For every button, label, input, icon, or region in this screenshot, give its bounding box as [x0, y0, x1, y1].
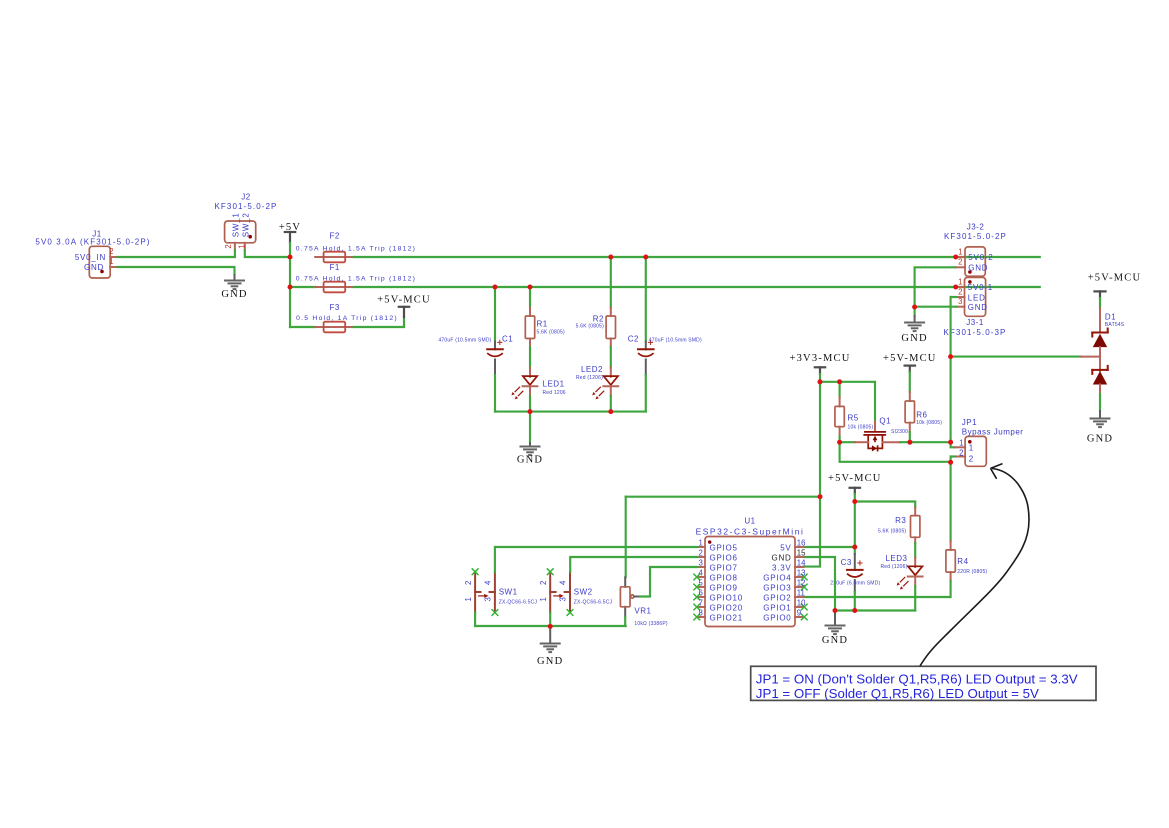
ground stem (C3 area) [834, 611, 836, 626]
junction switch ground [548, 624, 553, 629]
ground stem (D1) [1099, 411, 1101, 419]
capacitor C1 pins [494, 342, 496, 376]
wire LED2 bottom [610, 396, 612, 412]
svg-text:ZX-QC66-6.5CJ: ZX-QC66-6.5CJ [574, 600, 613, 606]
resistor R3 pins [914, 507, 916, 543]
svg-text:R4: R4 [957, 557, 968, 566]
svg-text:5.6K (0805): 5.6K (0805) [537, 329, 565, 335]
diode D1 BAT54S [1081, 291, 1125, 394]
wire R2 top [610, 257, 612, 308]
fuse F2 0.75A [296, 232, 416, 263]
junction F1 input [288, 285, 293, 290]
svg-text:C3: C3 [841, 558, 852, 567]
resistor R6 10k [905, 401, 942, 426]
connector J2 (power switch KF301-5.0-2P) [214, 193, 277, 251]
wire R5 bottom [839, 437, 841, 443]
wire R5 node to Q1 source [840, 441, 855, 443]
wire C1 bottom [494, 375, 496, 412]
label C3 [830, 558, 880, 586]
junction R5 top node [837, 379, 842, 384]
svg-text:GPIO8: GPIO8 [710, 574, 738, 583]
wire J1 pin2 to J2 pin2 [118, 256, 235, 258]
svg-text:2: 2 [698, 548, 702, 557]
svg-text:3.3V: 3.3V [772, 564, 791, 573]
junction JP1 pin2 node [948, 460, 953, 465]
svg-text:GND: GND [537, 656, 563, 667]
wire rail 5V0-2 (F2 output) [354, 256, 1040, 258]
wire JP1 pin1 elbow [951, 442, 955, 447]
U1 left pins GPIO5-GPIO21 [693, 538, 743, 622]
svg-text:GND: GND [901, 333, 927, 344]
svg-text:C1: C1 [502, 335, 513, 344]
wire F3 input stub [290, 326, 315, 328]
wire C2 bottom [645, 375, 647, 412]
LED LED3 (Red 1206) [880, 554, 922, 590]
wire J3-2 pin2 to GND [915, 267, 956, 316]
U1 right pins 5V/GND/3.3V/GPIO [763, 538, 807, 622]
svg-text:GPIO2: GPIO2 [763, 594, 791, 603]
power symbol +5V [279, 222, 301, 233]
svg-text:LED: LED [968, 293, 986, 302]
capacitor C1 (470uF) [487, 340, 503, 357]
svg-text:GPIO10: GPIO10 [710, 594, 743, 603]
svg-text:1: 1 [539, 597, 548, 601]
svg-text:GPIO21: GPIO21 [710, 614, 743, 623]
svg-text:J3-1: J3-1 [966, 318, 984, 327]
svg-text:VR1: VR1 [634, 606, 651, 615]
wire J2 pin1 to +5V node [245, 251, 290, 258]
switch SW1 ZX-QC66-6.5CJ [464, 568, 538, 616]
resistor R2 5.6K [576, 315, 616, 339]
label C2 [628, 335, 702, 344]
svg-text:GND: GND [517, 455, 543, 466]
svg-text:2: 2 [109, 247, 113, 256]
svg-text:SW1: SW1 [499, 587, 518, 596]
junction R5/Q1/JP1-2 node [837, 440, 842, 445]
power symbol +5V-MCU (F3) [377, 295, 431, 307]
wire JP1 pin2 elbow [951, 457, 955, 463]
svg-text:470uF (10.5mm SMD): 470uF (10.5mm SMD) [438, 337, 491, 343]
wire +5V stem [289, 232, 291, 257]
svg-text:GND: GND [84, 263, 104, 272]
power symbol +5V-MCU (C3) [828, 473, 882, 488]
svg-text:SW_2: SW_2 [242, 212, 251, 237]
junction GND bus / stem [833, 608, 838, 613]
resistor R5 pins [839, 397, 841, 437]
svg-text:1: 1 [238, 244, 247, 248]
svg-text:GPIO1: GPIO1 [763, 604, 791, 613]
LED LED2 (Red 1206) [576, 365, 618, 399]
jumper JP1 (Bypass Jumper) [955, 418, 1023, 467]
svg-text:Red (1206): Red (1206) [576, 375, 603, 381]
svg-text:3: 3 [483, 597, 492, 601]
junction LED net to D1 [948, 354, 953, 359]
svg-text:R6: R6 [916, 410, 927, 419]
junction C2 top [643, 255, 648, 260]
wire R1 top [529, 287, 531, 308]
wire C3 bottom [854, 592, 856, 611]
svg-text:KF301-5.0-2P: KF301-5.0-2P [944, 232, 1007, 241]
svg-text:5V: 5V [780, 544, 791, 553]
svg-text:GPIO4: GPIO4 [763, 574, 791, 583]
wire C1 top [494, 287, 496, 342]
wire SW2 pin4 to U1 GPIO6 [570, 557, 697, 572]
svg-text:R3: R3 [895, 516, 906, 525]
wire +3V3 stem [819, 367, 821, 382]
svg-text:BAT54S: BAT54S [1105, 322, 1125, 328]
svg-text:6: 6 [698, 588, 702, 597]
wire rail 5V0-1 (F1 output) [354, 286, 1040, 288]
svg-text:11: 11 [797, 588, 805, 597]
svg-text:10k (0805): 10k (0805) [916, 420, 942, 426]
svg-text:SW2: SW2 [574, 587, 593, 596]
svg-text:+5V-MCU: +5V-MCU [377, 295, 431, 306]
svg-text:10k (0805): 10k (0805) [848, 424, 874, 430]
svg-text:5.6K (0805): 5.6K (0805) [576, 323, 604, 329]
wire VR1 bottom to ground bus [624, 617, 626, 626]
svg-text:ZX-QC66-6.5CJ: ZX-QC66-6.5CJ [499, 600, 538, 606]
svg-text:Red (1206): Red (1206) [880, 564, 907, 570]
label C1 [438, 335, 513, 344]
wire SW2 pin1 down [549, 613, 551, 627]
svg-text:16: 16 [797, 538, 806, 547]
svg-text:1: 1 [958, 247, 962, 256]
svg-text:GND: GND [221, 289, 247, 300]
svg-text:1: 1 [969, 443, 974, 452]
svg-text:J3-2: J3-2 [967, 222, 985, 231]
junction C3 bottom [852, 608, 857, 613]
resistor R5 10k [835, 406, 874, 430]
connector J3-2 (KF301-5.0-2P) [944, 222, 1007, 276]
wire R5 top [839, 382, 841, 397]
junction U1 5V pin net [852, 545, 857, 550]
svg-text:GND: GND [771, 554, 791, 563]
junction C1 top [493, 285, 498, 290]
wire +3V3 to VR1 top [625, 497, 627, 578]
wire F3 output to +5V-MCU [354, 317, 404, 327]
wire J1 pin1 to GND [118, 267, 235, 275]
junction R6 bottom node [907, 440, 912, 445]
wire LED3 bottom [914, 586, 916, 610]
wire F1 input stub [290, 286, 315, 288]
svg-text:GPIO5: GPIO5 [710, 544, 738, 553]
wire J3-1 pin3 to GND node [915, 306, 956, 308]
capacitor C3 pins [854, 554, 856, 592]
svg-text:8: 8 [698, 608, 702, 617]
svg-text:1: 1 [109, 257, 113, 266]
svg-text:LED3: LED3 [885, 554, 907, 563]
wire R6 bottom [909, 432, 911, 442]
svg-text:KF301-5.0-3P: KF301-5.0-3P [943, 328, 1006, 337]
fuse F1 0.75A [296, 263, 416, 293]
svg-text:3: 3 [958, 297, 962, 306]
LED LED1 (Red 1206) [511, 368, 565, 400]
svg-text:J2: J2 [241, 193, 251, 202]
switch SW2 ZX-QC66-6.5CJ [539, 568, 613, 616]
svg-text:15: 15 [797, 548, 806, 557]
svg-text:0.75A Hold, 1.5A Trip (1812): 0.75A Hold, 1.5A Trip (1812) [296, 245, 416, 252]
wire +5V-MCU stem (R6) [909, 366, 911, 392]
resistor R1 5.6K [525, 316, 565, 339]
wire C3 top / 5V pin net [854, 502, 856, 555]
capacitor C3 (220uF) [847, 560, 863, 577]
svg-text:3: 3 [698, 558, 702, 567]
svg-text:+3V3-MCU: +3V3-MCU [789, 353, 850, 364]
wire +5V-MCU stem (C3) [854, 488, 856, 502]
svg-text:2: 2 [224, 244, 233, 248]
wire J2 pin2 stub down [234, 251, 236, 258]
wire R2 to LED2 [610, 347, 612, 368]
svg-text:0.75A Hold, 1.5A Trip (1812): 0.75A Hold, 1.5A Trip (1812) [296, 275, 416, 282]
svg-text:JP1 = ON (Don't Solder Q1,R5,R: JP1 = ON (Don't Solder Q1,R5,R6) LED Out… [756, 671, 1078, 686]
wire switch ground bus [475, 625, 626, 627]
svg-text:2: 2 [959, 448, 963, 457]
svg-text:1: 1 [464, 597, 473, 601]
wire GND bus (C3 area) [835, 609, 915, 611]
svg-text:Q1: Q1 [879, 416, 891, 425]
svg-text:1: 1 [959, 439, 963, 448]
svg-text:470uF (10.5mm SMD): 470uF (10.5mm SMD) [649, 337, 702, 343]
ground stem (switches) [549, 626, 551, 643]
junction R2 top [608, 255, 613, 260]
wire R1 to LED1 [529, 347, 531, 368]
wire bus to GND [529, 412, 531, 443]
svg-text:KF301-5.0-2P: KF301-5.0-2P [214, 202, 277, 211]
svg-text:4: 4 [698, 568, 703, 577]
svg-text:5: 5 [698, 578, 703, 587]
power symbol +5V-MCU (D1) [1088, 273, 1142, 292]
wire Q1 drain to R6 node [900, 441, 951, 443]
junction LED1 bottom [528, 409, 533, 414]
svg-text:+5V-MCU: +5V-MCU [1088, 273, 1142, 284]
wire +5V feed down to F1 and F3 [289, 257, 291, 327]
svg-text:JP1 = OFF (Solder Q1,R5,R6) LE: JP1 = OFF (Solder Q1,R5,R6) LED Output =… [756, 686, 1039, 701]
junction J3 ground node [912, 305, 917, 310]
svg-text:7: 7 [698, 598, 702, 607]
junction rail2 at J3-1 pin1 [953, 285, 958, 290]
svg-text:5V0-2: 5V0-2 [968, 253, 993, 262]
svg-text:2: 2 [958, 287, 962, 296]
fuse F3 0.5A [296, 303, 398, 333]
transistor Q1 SI2300 [855, 416, 908, 451]
svg-text:2: 2 [539, 581, 548, 585]
ground stem (LED bus) [529, 443, 531, 447]
svg-text:Red 1206: Red 1206 [543, 390, 566, 396]
svg-text:2: 2 [969, 454, 974, 463]
note box JP1 explanation [751, 666, 1096, 701]
ground GND (C3 area) [822, 626, 848, 646]
power symbol +5V-MCU (R6) [883, 353, 937, 366]
svg-text:LED2: LED2 [581, 365, 603, 374]
wire R3 to LED3 [914, 543, 916, 558]
junction +5V-MCU node [852, 499, 857, 504]
wire J3-1 pin2 LED net down [951, 296, 956, 298]
svg-text:12: 12 [797, 578, 806, 587]
svg-text:+5V-MCU: +5V-MCU [883, 353, 937, 364]
svg-text:F1: F1 [330, 263, 340, 272]
wire +3V3 down to U1 3.3V pin [804, 382, 821, 567]
wire +5V-MCU stem (F3) [403, 307, 405, 317]
svg-text:GPIO3: GPIO3 [763, 584, 791, 593]
svg-text:GND: GND [1087, 433, 1113, 444]
wire U1 pin15 GND [804, 557, 836, 611]
svg-text:Bypass Jumper: Bypass Jumper [962, 428, 1024, 437]
svg-text:5V0-1: 5V0-1 [968, 283, 993, 292]
resistor R4 pins [950, 541, 952, 581]
svg-text:2: 2 [958, 258, 962, 267]
resistor R3 5.6K [878, 516, 920, 538]
wire LED1 bottom [529, 396, 531, 412]
wire VR1 wiper to U1 GPIO7 [640, 567, 697, 597]
resistor R2 pins [610, 308, 612, 348]
junction R1 top [528, 285, 533, 290]
svg-text:GPIO20: GPIO20 [710, 604, 743, 613]
svg-text:4: 4 [558, 580, 567, 585]
svg-text:3: 3 [558, 597, 567, 601]
capacitor C2 pins [645, 342, 647, 376]
capacitor C2 (470uF) [638, 340, 654, 357]
svg-text:GND: GND [968, 303, 988, 312]
wire C2 top [645, 257, 647, 342]
svg-text:C2: C2 [628, 335, 639, 344]
svg-text:GPIO0: GPIO0 [763, 614, 791, 623]
svg-text:+5V-MCU: +5V-MCU [828, 473, 882, 484]
resistor R4 220R [946, 550, 988, 575]
junction JP1 pin1 node [948, 440, 953, 445]
wire D1 to GND [1099, 394, 1101, 411]
resistor R1 pins [529, 308, 531, 348]
svg-text:0.5 Hold, 1A Trip (1812): 0.5 Hold, 1A Trip (1812) [296, 315, 398, 322]
svg-text:LED1: LED1 [543, 379, 565, 388]
connector J1 (5V0 3.0A KF301-5.0-2P) [35, 230, 150, 279]
ground stem (J3) [914, 316, 916, 323]
svg-text:R1: R1 [537, 319, 548, 328]
svg-text:D1: D1 [1105, 313, 1116, 322]
wire R4 bottom to U1 GPIO2 [804, 581, 951, 597]
svg-text:F2: F2 [330, 232, 340, 241]
wire +5V-MCU to R3 [855, 502, 915, 508]
svg-text:GND: GND [968, 264, 988, 273]
svg-text:2: 2 [464, 581, 473, 585]
wire SW1 pin1 down [474, 613, 476, 627]
svg-text:JP1: JP1 [962, 418, 977, 427]
svg-text:10kΩ (3386P): 10kΩ (3386P) [634, 621, 668, 627]
junction +3V3 at U1 [818, 494, 823, 499]
svg-text:1: 1 [698, 538, 702, 547]
svg-text:F3: F3 [330, 303, 340, 312]
junction LED2 bottom [608, 409, 613, 414]
ground GND (switches) [537, 644, 563, 667]
wire SW1 pin4 to U1 GPIO5 [495, 547, 698, 572]
wire +3V3 to Q1 gate [820, 382, 875, 422]
wire LED net to D1 [951, 356, 1081, 358]
junction +5V / F2 input [288, 255, 293, 260]
potentiometer VR1 10k 3386P [620, 577, 668, 627]
wire LED group bottom bus [495, 411, 646, 413]
svg-text:5V0_IN: 5V0_IN [75, 253, 106, 262]
IC U1 ESP32-C3-SuperMini [696, 516, 805, 626]
wire +3V3 horizontal to VR1 [626, 496, 820, 498]
svg-text:9: 9 [797, 608, 801, 617]
svg-text:1: 1 [958, 277, 962, 286]
wire R4 top (LED net) [950, 462, 952, 541]
svg-text:GPIO7: GPIO7 [710, 564, 738, 573]
wire JP1 pin2 to R5 node [840, 442, 951, 462]
svg-text:ESP32-C3-SuperMini: ESP32-C3-SuperMini [696, 527, 805, 537]
svg-text:4: 4 [483, 580, 492, 585]
svg-text:U1: U1 [744, 516, 755, 525]
annotation arrow from note to JP1 [920, 464, 1029, 666]
junction +3V3 node [818, 379, 823, 384]
power symbol +3V3-MCU [789, 353, 850, 367]
svg-text:GPIO9: GPIO9 [710, 584, 738, 593]
svg-text:GND: GND [822, 635, 848, 646]
svg-text:13: 13 [797, 568, 806, 577]
ground GND (J1 input) [221, 281, 247, 301]
svg-text:SI2300: SI2300 [891, 429, 908, 435]
svg-text:GPIO6: GPIO6 [710, 554, 738, 563]
svg-text:R2: R2 [593, 315, 604, 324]
svg-text:SW_1: SW_1 [232, 212, 241, 237]
svg-text:5.6K (0805): 5.6K (0805) [878, 528, 906, 534]
wire LED net vertical [950, 297, 952, 442]
ground symbol near J2 [234, 275, 236, 281]
svg-text:14: 14 [797, 558, 806, 567]
ground GND (D1) [1087, 419, 1113, 445]
svg-text:220uF (6.6mm SMD): 220uF (6.6mm SMD) [830, 580, 880, 586]
ground GND (LED bus) [517, 447, 543, 466]
svg-text:220R (0805): 220R (0805) [957, 569, 987, 575]
svg-text:R5: R5 [848, 414, 859, 423]
resistor R6 pins [909, 392, 911, 432]
svg-text:5V0 3.0A (KF301-5.0-2P): 5V0 3.0A (KF301-5.0-2P) [35, 238, 150, 247]
connector J3-1 (KF301-5.0-3P) [943, 277, 1006, 337]
ground GND (J3) [901, 323, 927, 344]
svg-text:10: 10 [797, 598, 806, 607]
junction rail1 at J3-2 pin1 [953, 255, 958, 260]
wire U1 pin16 5V [804, 546, 855, 548]
